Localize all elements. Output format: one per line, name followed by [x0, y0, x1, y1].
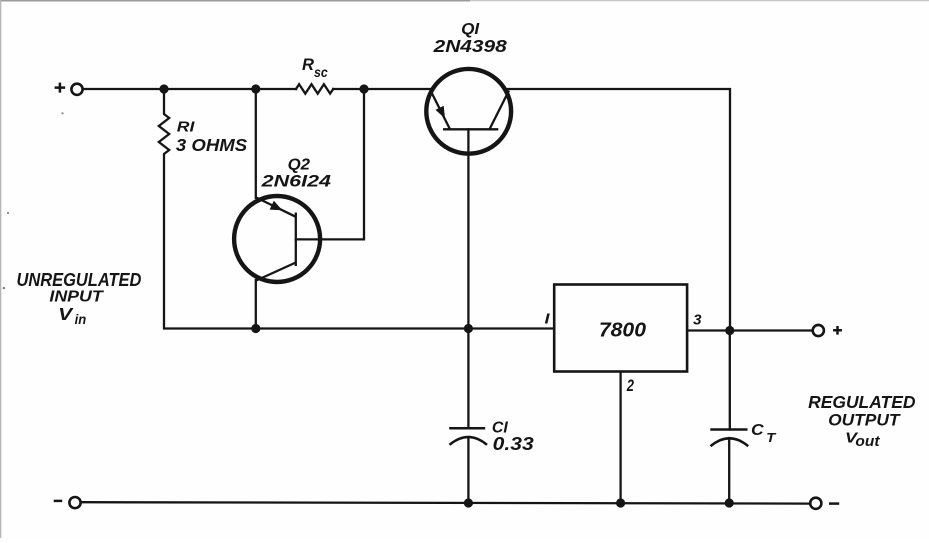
svg-text:INPUT: INPUT — [49, 289, 104, 306]
svg-text:C: C — [751, 422, 764, 439]
svg-text:RI: RI — [177, 120, 196, 136]
svg-text:3 OHMS: 3 OHMS — [176, 135, 248, 155]
svg-text:0.33: 0.33 — [493, 433, 535, 454]
svg-text:V: V — [58, 305, 74, 324]
svg-text:in: in — [75, 312, 87, 327]
svg-text:3: 3 — [693, 311, 702, 328]
svg-text:OUTPUT: OUTPUT — [828, 412, 901, 430]
svg-text:UNREGULATED: UNREGULATED — [17, 269, 142, 290]
svg-text:2N4398: 2N4398 — [432, 36, 507, 56]
svg-text:T: T — [766, 431, 777, 445]
svg-text:7800: 7800 — [599, 320, 646, 342]
svg-text:out: out — [855, 434, 880, 450]
svg-text:sc: sc — [314, 64, 328, 80]
svg-text:R: R — [302, 56, 314, 74]
svg-text:2N6I24: 2N6I24 — [260, 172, 331, 190]
svg-text:2: 2 — [626, 376, 635, 395]
svg-text:REGULATED: REGULATED — [808, 392, 916, 412]
svg-text:Q2: Q2 — [288, 157, 311, 174]
